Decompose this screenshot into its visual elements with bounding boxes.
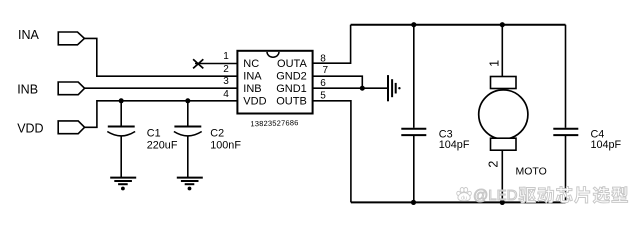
wire C1 to ground [120, 136, 122, 177]
pin number 6 [320, 78, 326, 89]
IC pin name GND1 [276, 83, 307, 95]
pin number 8 [320, 53, 326, 64]
label VDD [17, 122, 43, 136]
svg-text:1: 1 [488, 60, 502, 67]
IC pin name OUTB [276, 96, 307, 108]
motor pin label 2 [486, 161, 500, 168]
wire C1 branch [120, 101, 122, 127]
motor M1 [479, 77, 528, 151]
svg-text:104pF: 104pF [439, 139, 470, 151]
svg-text:2: 2 [223, 64, 229, 75]
svg-text:MOTO: MOTO [516, 165, 547, 177]
svg-text:du: du [461, 196, 467, 202]
label MOTO [516, 165, 547, 177]
svg-text:13823527686: 13823527686 [250, 118, 298, 128]
IC pin name NC [243, 58, 259, 70]
wire C2 branch [187, 101, 189, 127]
svg-text:INA: INA [18, 28, 40, 42]
svg-text:5: 5 [320, 91, 326, 102]
capacitor C2 [174, 127, 202, 136]
svg-text:GND1: GND1 [276, 83, 307, 95]
svg-text:VDD: VDD [17, 122, 43, 136]
label C2 100nF [210, 127, 241, 151]
svg-text:220uF: 220uF [147, 139, 178, 151]
pin number 4 [223, 89, 229, 100]
connector INA [58, 32, 84, 45]
svg-text:INB: INB [243, 83, 261, 95]
wire pin5 OUTB to bottom rail [313, 101, 351, 203]
svg-text:NC: NC [243, 58, 259, 70]
wire VDD to pin4 [85, 101, 238, 128]
svg-text:104pF: 104pF [591, 139, 622, 151]
svg-text:GND2: GND2 [276, 71, 307, 83]
svg-text:6: 6 [320, 78, 326, 89]
svg-text:OUTB: OUTB [276, 96, 307, 108]
watermark paw icon [456, 188, 472, 202]
label C4 104pF [591, 128, 622, 151]
wire C3 branch top [413, 25, 415, 128]
pin number 5 [320, 91, 326, 102]
IC pin name INA [243, 71, 262, 83]
svg-text:3: 3 [223, 76, 229, 87]
motor pin label 1 [488, 60, 502, 67]
IC phone watermark 13823527686 [250, 118, 298, 128]
junction node pin6/pin7 [360, 86, 365, 91]
svg-text:@LED: @LED [473, 187, 518, 204]
op IC U1 body [237, 51, 312, 114]
junction node top C3 [411, 22, 416, 27]
svg-text:INB: INB [17, 82, 38, 96]
label C3 104pF [439, 128, 470, 151]
label INA [18, 28, 40, 42]
svg-text:4: 4 [223, 89, 229, 100]
junction node bottom motor [500, 200, 505, 205]
ground G2 [177, 178, 203, 191]
wire motor branch bottom [501, 150, 503, 202]
junction node C2/VDD [185, 98, 190, 103]
wire bottom rail [351, 201, 566, 203]
wire C3 branch bottom [413, 136, 415, 202]
svg-text:2: 2 [486, 161, 500, 168]
IC pin name OUTA [277, 58, 307, 70]
wire C4 branch top [565, 25, 567, 128]
svg-text:1: 1 [223, 51, 229, 62]
connector INB [58, 82, 84, 95]
wire C2 to ground [187, 136, 189, 177]
connector VDD [58, 121, 84, 134]
capacitor C1 [107, 127, 135, 136]
junction node C1/VDD [119, 98, 124, 103]
wire pin6 GND1 to ground [313, 87, 387, 89]
watermark text CJK paths [519, 187, 628, 204]
label C1 220uF [147, 127, 178, 151]
junction node top motor [500, 22, 505, 27]
pin number 2 [223, 64, 229, 75]
wire motor branch top [501, 25, 503, 77]
svg-text:INA: INA [243, 71, 262, 83]
pin number 1 [223, 51, 229, 62]
pin number 3 [223, 76, 229, 87]
wire pin7 GND2 [313, 76, 363, 88]
IC pin name INB [243, 83, 261, 95]
capacitor C3 [401, 129, 426, 135]
IC pin name VDD [243, 96, 266, 108]
ground G3 sideways [388, 75, 401, 101]
no-connect X on pin1 [193, 59, 237, 68]
wire top rail [351, 24, 566, 26]
pin number 7 [323, 65, 329, 76]
svg-text:VDD: VDD [243, 96, 266, 108]
junction node bottom C3 [411, 200, 416, 205]
svg-text:7: 7 [323, 65, 329, 76]
svg-text:OUTA: OUTA [277, 58, 307, 70]
svg-text:C2: C2 [210, 127, 224, 139]
svg-text:C1: C1 [147, 127, 161, 139]
label INB [17, 82, 38, 96]
wire INB to pin3 [85, 87, 238, 89]
wire C4 branch bottom [565, 136, 567, 202]
svg-text:100nF: 100nF [210, 139, 241, 151]
ground G1 [110, 178, 136, 191]
IC pin name GND2 [276, 71, 307, 83]
capacitor C4 [553, 129, 578, 135]
wire INA to pin2 [84, 38, 237, 76]
watermark logo and text [450, 182, 640, 210]
wire pin8 OUTA to top rail [313, 25, 351, 64]
